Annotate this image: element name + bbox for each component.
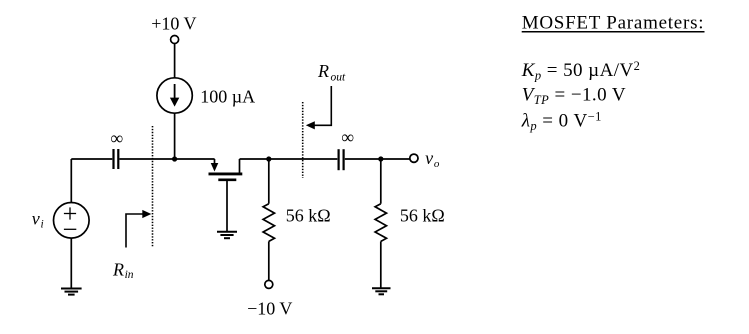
svg-text:R: R — [112, 260, 124, 280]
svg-text:56 kΩ: 56 kΩ — [286, 206, 331, 226]
wire node B to capacitor C2 — [269, 158, 338, 160]
svg-text:R: R — [317, 61, 329, 81]
resistor R2 56k — [375, 204, 386, 242]
terminal vo — [410, 154, 418, 162]
current source I1 — [157, 78, 192, 113]
wire drain to node B — [240, 158, 269, 160]
svg-text:+10 V: +10 V — [151, 14, 196, 34]
source arrow — [214, 159, 216, 164]
measurement line Rout (dotted) — [302, 102, 304, 178]
wire node C to resistor R2 — [380, 159, 382, 204]
wire node B to resistor R1 — [268, 159, 270, 204]
wire R1 to -10V terminal — [268, 241, 270, 280]
capacitor C1 — [114, 149, 119, 169]
ground (R2) — [372, 288, 391, 294]
wire vi to wire top — [70, 159, 72, 203]
leader arrow Rout — [306, 86, 332, 129]
svg-text:∞: ∞ — [110, 128, 123, 148]
svg-text:v: v — [32, 208, 40, 228]
ground (vi) — [61, 289, 82, 295]
capacitor C2 — [339, 149, 344, 170]
measurement line Rin (dotted) — [152, 126, 154, 247]
channel bar — [209, 172, 243, 175]
wire C1 to node A — [120, 158, 215, 160]
wire vi to ground — [70, 238, 72, 288]
svg-text:100 µA: 100 µA — [200, 86, 255, 106]
svg-text:i: i — [41, 219, 44, 231]
svg-text:56 kΩ: 56 kΩ — [400, 206, 445, 226]
terminal -10V — [265, 280, 273, 288]
resistor R1 56k — [263, 204, 274, 242]
node A junction dot — [172, 156, 177, 161]
svg-text:MOSFET Parameters:: MOSFET Parameters: — [522, 13, 705, 34]
wire gate to ground — [226, 180, 228, 231]
svg-text:v: v — [425, 148, 433, 168]
svg-text:o: o — [434, 158, 440, 170]
svg-text:∞: ∞ — [341, 127, 354, 147]
node B junction dot — [266, 156, 271, 161]
svg-text:−10 V: −10 V — [247, 299, 292, 319]
transistor M1 (PMOS, source arrow) — [209, 159, 243, 180]
svg-text:out: out — [331, 71, 347, 83]
underline of heading — [522, 31, 705, 33]
wire terminal to current source I1 — [174, 43, 176, 78]
svg-text:in: in — [125, 269, 134, 281]
wire C2 to output terminal — [345, 158, 410, 160]
wire vi to capacitor C1 — [71, 158, 112, 160]
node C junction dot — [378, 156, 383, 161]
drain stub — [239, 159, 241, 174]
ground (gate) — [217, 232, 237, 239]
terminal +10V — [171, 36, 179, 44]
leader arrow Rin — [126, 210, 151, 248]
wire R2 to ground — [380, 241, 382, 288]
gate bar — [218, 179, 236, 182]
wire I1 to node A — [174, 113, 176, 159]
source vi — [54, 203, 90, 239]
